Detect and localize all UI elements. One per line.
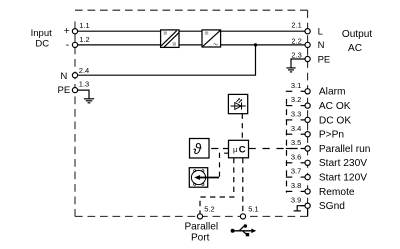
wire dashed module border left — [74, 22, 76, 217]
svg-text:Parallel: Parallel — [184, 221, 218, 232]
node terminal 2.3 — [305, 56, 310, 61]
wire contact stub 3.7 — [301, 176, 308, 178]
USB port symbol — [231, 224, 257, 236]
wire contact arm dash 3.8 — [286, 190, 293, 192]
svg-text:1.1: 1.1 — [79, 21, 89, 30]
wire dashed uC to parallel-run contact 3.5 — [249, 148, 302, 150]
wire 3.9 stub to bottom border — [307, 206, 309, 217]
node terminal 3.2 — [305, 103, 310, 108]
rotary selector switch block — [189, 168, 219, 188]
converter DC/DC block — [161, 30, 179, 48]
ground earth symbol left — [84, 99, 94, 103]
svg-text:3.2: 3.2 — [291, 95, 301, 104]
svg-text:ϑ: ϑ — [193, 142, 202, 158]
wire contact stub 3.9 — [301, 205, 308, 207]
node terminal 3.3 — [305, 117, 310, 122]
wire contact arm dash 3.6 — [286, 162, 293, 164]
node terminal 2.2 — [305, 42, 310, 47]
LED indicator block — [228, 94, 247, 113]
node terminal 1.3 — [72, 88, 77, 93]
wire dashed LED to uC — [241, 114, 243, 141]
wire contact arm dash 3.4 — [286, 133, 293, 135]
wire PE 1.3 to earth — [75, 90, 89, 99]
node terminal 2.4 — [72, 73, 77, 78]
svg-text:Start 120V: Start 120V — [319, 173, 367, 184]
svg-text:-: - — [66, 39, 70, 51]
node terminal 3.1 — [305, 89, 310, 94]
svg-text:2.3: 2.3 — [291, 51, 301, 60]
svg-text:5.2: 5.2 — [204, 205, 214, 214]
wire contact arm dash 3.1 — [286, 90, 293, 92]
svg-text:L: L — [318, 26, 323, 37]
node terminal 2.1 — [305, 29, 310, 34]
node terminal 3.5 — [305, 146, 310, 151]
wire contact stub 3.6 — [301, 162, 308, 164]
temperature sensor block — [190, 139, 210, 159]
wire PE 2.3 to earth — [291, 59, 308, 68]
inverter DC/AC block — [202, 30, 221, 47]
node terminal 3.6 — [305, 160, 310, 165]
svg-text:DC OK: DC OK — [319, 115, 351, 126]
node terminal 3.4 — [305, 132, 310, 137]
wire dashed uC to switch arrow — [220, 153, 229, 177]
svg-text:+: + — [64, 25, 70, 37]
svg-text:DC: DC — [35, 38, 49, 49]
wire contact stub 3.8 — [301, 190, 308, 192]
svg-text:PE: PE — [318, 55, 331, 66]
svg-text:C: C — [239, 144, 246, 155]
wire contact stub 3.5 — [301, 148, 308, 150]
wire dashed uC to terminal 5.1 — [242, 158, 244, 214]
node terminal 1.1 — [72, 29, 77, 34]
wire dashed uC to terminal 5.2 — [200, 158, 234, 214]
wire contact arm dash 3.2 — [286, 105, 293, 107]
svg-text:Parallel run: Parallel run — [319, 144, 371, 155]
node terminal 1.2 — [72, 42, 77, 47]
ground earth symbol right — [286, 68, 295, 72]
svg-text:3.4: 3.4 — [291, 124, 301, 133]
wire N return from terminal 2.4 to junction — [75, 45, 256, 75]
wire SGnd 3.9 to signal ground — [297, 206, 307, 211]
wire L line from terminal 1.1 to terminal 2.1 — [75, 30, 308, 32]
svg-text:3.5: 3.5 — [291, 138, 301, 147]
svg-text:P>Pn: P>Pn — [319, 130, 344, 141]
svg-text:Start 230V: Start 230V — [319, 158, 367, 169]
node terminal 3.7 — [305, 175, 310, 180]
wire contact stub 3.1 — [301, 90, 308, 92]
wire dashed module border right — [307, 10, 309, 216]
wire dashed module border top — [75, 9, 308, 11]
wire dashed module border bottom — [75, 215, 308, 217]
wire contact arm dash 3.3 — [286, 119, 293, 121]
svg-text:3.3: 3.3 — [291, 110, 301, 119]
wire contact stub 3.3 — [301, 119, 308, 121]
svg-text:N: N — [60, 71, 67, 82]
wire contact stub 3.4 — [301, 133, 308, 135]
svg-text:AC OK: AC OK — [319, 101, 351, 112]
node terminal 3.8 — [305, 189, 310, 194]
svg-text:Output: Output — [342, 29, 372, 40]
svg-text:3.8: 3.8 — [291, 181, 301, 190]
wire dashed sensor to uC — [211, 148, 228, 150]
svg-text:µ: µ — [233, 145, 238, 154]
svg-text:2.2: 2.2 — [291, 36, 301, 45]
svg-text:PE: PE — [57, 85, 70, 96]
wire N line from terminal 1.2 to terminal 2.2 — [75, 44, 308, 46]
svg-text:3.1: 3.1 — [291, 81, 301, 90]
svg-text:3.6: 3.6 — [291, 152, 301, 161]
svg-text:3.7: 3.7 — [291, 167, 301, 176]
svg-text:AC: AC — [348, 43, 362, 54]
microcontroller uC block — [229, 140, 249, 158]
svg-text:2.4: 2.4 — [79, 66, 89, 75]
svg-text:5.1: 5.1 — [248, 205, 258, 214]
wire contact arm dash 3.7 — [286, 176, 293, 178]
svg-text:SGnd: SGnd — [319, 201, 345, 212]
wire contact stub 3.2 — [301, 105, 308, 107]
svg-text:3.9: 3.9 — [291, 195, 301, 204]
node N junction dot — [254, 43, 257, 46]
svg-text:2.1: 2.1 — [291, 21, 301, 30]
svg-text:Remote: Remote — [319, 187, 355, 198]
node terminal 3.9 — [305, 203, 310, 208]
wire relay linkage dashed vertical — [286, 99, 288, 193]
ground signal-ground bar — [294, 210, 301, 212]
node terminal 5.2 — [197, 214, 202, 219]
svg-text:Port: Port — [191, 232, 210, 243]
svg-text:1.2: 1.2 — [79, 35, 89, 44]
svg-text:1.3: 1.3 — [79, 80, 89, 89]
svg-text:Alarm: Alarm — [319, 87, 346, 98]
node terminal 5.1 — [240, 214, 245, 219]
wire contact arm dash 3.5 — [286, 148, 293, 150]
svg-text:N: N — [318, 40, 325, 51]
